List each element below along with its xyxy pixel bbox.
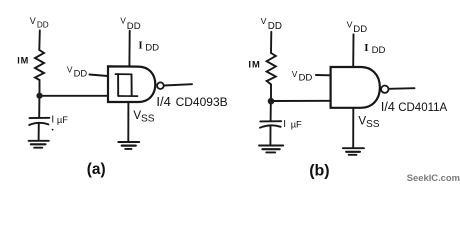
output wire (a) xyxy=(164,84,192,85)
svg-text:V: V xyxy=(30,16,36,26)
svg-text:DD: DD xyxy=(74,67,88,78)
output wire (b) xyxy=(389,87,415,90)
svg-text:CD4093B: CD4093B xyxy=(176,95,228,109)
svg-text:DD: DD xyxy=(372,45,386,56)
svg-text:I: I xyxy=(248,59,251,70)
wire VDD to resistor R1 (a) xyxy=(38,31,41,51)
svg-text:I/4: I/4 xyxy=(156,94,170,109)
svg-text:DD: DD xyxy=(353,24,367,35)
op-amp gate U1 NAND body (a) xyxy=(108,66,155,102)
schmitt hysteresis symbol inside U1 (a) xyxy=(115,73,131,75)
svg-text:I: I xyxy=(17,56,20,66)
capacitor C2 top plate (b) xyxy=(260,120,281,122)
ground VSS (a) xyxy=(118,141,139,143)
wire node B to gate input (b) xyxy=(273,100,331,102)
wire node A to capacitor C1 (a) xyxy=(38,98,40,118)
svg-text:DD: DD xyxy=(145,42,159,53)
svg-text:SS: SS xyxy=(366,119,380,130)
gate U2 NAND body (b) xyxy=(331,67,380,108)
capacitor C1 curved plate (a) xyxy=(29,123,48,125)
wire C1 to ground (a) xyxy=(38,124,40,141)
capacitor C2 curved plate (b) xyxy=(260,125,281,127)
svg-text:M: M xyxy=(21,56,29,66)
capacitor C1 top plate (a) xyxy=(30,117,50,119)
node B junction dot (b) xyxy=(268,98,275,105)
inversion bubble U2 (b) xyxy=(381,86,388,93)
svg-text:SeekIC.com: SeekIC.com xyxy=(407,172,460,183)
svg-text:V: V xyxy=(261,16,267,26)
wire VDD to gate input stub (b) xyxy=(316,74,331,76)
svg-text:DD: DD xyxy=(299,72,313,83)
svg-text:V: V xyxy=(292,69,298,79)
wire VDD to gate input stub (a) xyxy=(89,75,107,77)
resistor R1 1M (a) xyxy=(35,50,44,80)
inversion bubble U1 (a) xyxy=(157,82,164,89)
wire node B to capacitor C2 (b) xyxy=(270,104,272,121)
wire VSS to ground (b) xyxy=(352,108,354,148)
wire VDD to gate top pin 14 (a) xyxy=(128,31,130,67)
svg-text:SS: SS xyxy=(141,113,155,124)
wire VSS to ground (a) xyxy=(127,102,129,141)
svg-text:DD: DD xyxy=(127,21,141,32)
node A junction dot (a) xyxy=(36,93,42,99)
svg-text:V: V xyxy=(67,65,73,75)
ground for C2 (b) xyxy=(259,145,283,147)
wire R1 to node A (a) xyxy=(39,80,41,93)
svg-text:µF: µF xyxy=(57,115,68,125)
resistor R2 1M (b) xyxy=(267,53,276,84)
svg-text:V: V xyxy=(120,17,126,26)
svg-text:I: I xyxy=(364,42,368,54)
svg-text:CD4011A: CD4011A xyxy=(398,102,447,114)
svg-text:µF: µF xyxy=(291,119,302,129)
svg-text:DD: DD xyxy=(37,20,49,29)
wire R2 to node B (b) xyxy=(270,84,272,98)
svg-text:M: M xyxy=(252,59,260,70)
svg-text:I: I xyxy=(51,114,54,125)
wire node A to gate input (a) xyxy=(41,95,108,97)
stray dot near C1 label xyxy=(52,129,54,131)
svg-text:(b): (b) xyxy=(309,162,329,179)
wire C2 to ground (b) xyxy=(269,126,271,145)
ground VSS (b) xyxy=(343,147,364,149)
svg-text:I/4: I/4 xyxy=(381,100,395,114)
svg-text:V: V xyxy=(347,19,353,29)
svg-text:DD: DD xyxy=(268,21,282,32)
ground for C1 (a) xyxy=(29,140,49,142)
svg-text:I: I xyxy=(138,40,142,52)
svg-text:(a): (a) xyxy=(87,161,106,178)
wire VDD to resistor R2 (b) xyxy=(270,32,272,53)
wire VDD to gate top pin 14 (b) xyxy=(352,34,354,67)
svg-text:I: I xyxy=(283,119,286,130)
